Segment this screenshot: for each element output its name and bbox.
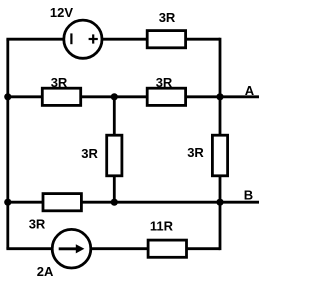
- svg-text:3R: 3R: [159, 10, 176, 25]
- svg-text:3R: 3R: [29, 216, 46, 231]
- wire: top row: [6, 38, 220, 41]
- junction dot (left, B row): [4, 199, 11, 206]
- wire: left rail: [6, 39, 9, 249]
- label 3R (A row, right): [156, 75, 173, 90]
- junction dot (middle, B row): [111, 199, 118, 206]
- node B: [244, 188, 253, 203]
- svg-text:3R: 3R: [81, 146, 98, 161]
- svg-text:3R: 3R: [156, 75, 173, 90]
- label 3R (right vertical): [187, 145, 204, 160]
- label 12V: [50, 5, 73, 20]
- svg-text:3R: 3R: [51, 75, 68, 90]
- label 3R (B row): [29, 216, 46, 231]
- wire: node B row: [6, 201, 259, 204]
- junction dot (right, B row): [216, 199, 223, 206]
- wire: node A row: [6, 95, 259, 98]
- wire: right rail: [219, 38, 222, 250]
- label 3R (top row): [159, 10, 176, 25]
- resistor 3R (right vertical): [212, 135, 227, 176]
- wire: middle branch: [113, 97, 116, 202]
- current source 2A: [52, 229, 91, 268]
- resistor 3R (middle vertical): [107, 135, 122, 176]
- svg-text:2A: 2A: [37, 264, 54, 279]
- svg-text:11R: 11R: [150, 218, 174, 233]
- resistor 3R (A row, left): [42, 88, 80, 105]
- node A: [245, 83, 255, 98]
- svg-text:B: B: [244, 188, 253, 203]
- label 3R (A row, left): [51, 75, 68, 90]
- label 2A: [37, 264, 54, 279]
- svg-text:3R: 3R: [187, 145, 204, 160]
- junction dot (right, A row): [216, 93, 223, 100]
- resistor 11R (bottom row): [148, 240, 186, 257]
- voltage source 12V: [64, 20, 102, 58]
- resistor 3R (B row): [43, 194, 81, 211]
- wire: bottom row: [6, 247, 220, 250]
- resistor 3R (A row, right): [147, 88, 185, 105]
- svg-text:12V: 12V: [50, 5, 73, 20]
- svg-text:A: A: [245, 83, 255, 98]
- label 11R: [150, 218, 174, 233]
- junction dot (middle, A row): [111, 93, 118, 100]
- junction dot (left, A row): [4, 93, 11, 100]
- label 3R (middle vertical): [81, 146, 98, 161]
- resistor 3R (top row): [147, 31, 185, 48]
